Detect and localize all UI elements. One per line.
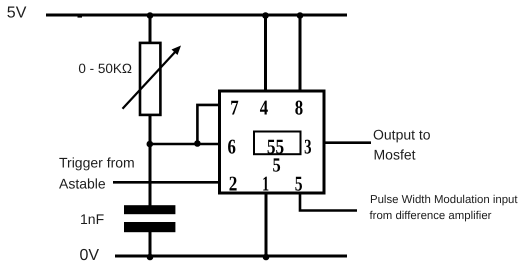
wire pin1 to ground rail [265,193,268,256]
svg-text:Pulse Width Modulation input: Pulse Width Modulation input [370,194,518,206]
wire capacitor to ground rail [149,231,152,257]
node junction resistor-pin6 [147,141,154,148]
svg-text:Astable: Astable [59,176,106,192]
svg-text:5: 5 [295,172,303,196]
wire trigger to pin2 [113,181,219,184]
node junction 5V-pin8 [297,12,304,19]
wire rail to pin8 [299,16,302,90]
node artifact on 5V rail [78,15,83,18]
node junction 5V-resistor [147,12,154,19]
node junction pin7-pin6 [194,140,201,147]
svg-text:from difference amplifier: from difference amplifier [370,210,492,222]
node junction 5V-pin4 [262,12,269,19]
resistor VR1 arrow shaft [123,51,177,109]
svg-text:8: 8 [295,96,303,120]
wire rail to pin4 [264,16,267,90]
wire resistor bottom to capacitor [149,115,152,206]
wire pin5 to PWM input [300,193,357,211]
svg-text:Trigger from: Trigger from [59,155,135,171]
svg-text:Output to: Output to [373,126,431,142]
svg-text:5: 5 [273,155,281,177]
svg-text:1nF: 1nF [80,211,104,227]
wire pin6 to resistor wire [148,143,219,146]
wire 5V top rail [46,14,347,17]
svg-text:6: 6 [228,134,236,158]
wire rail to resistor top [149,15,152,43]
wire 0V ground rail [115,255,347,258]
svg-text:5V: 5V [7,5,27,22]
IC label 55 box [254,132,301,155]
svg-text:3: 3 [304,134,311,158]
resistor VR1 arrow head [172,46,182,56]
svg-text:0V: 0V [80,247,100,264]
wire pin7 bracket to pin6 [197,105,219,144]
node junction cap-0V [147,254,154,261]
svg-text:0 - 50KΩ: 0 - 50KΩ [78,61,132,76]
svg-text:4: 4 [260,96,269,120]
op-amp U1 555 timer box [220,91,325,193]
svg-text:7: 7 [230,96,238,120]
wire pin3 output [324,141,371,144]
svg-text:Mosfet: Mosfet [374,147,416,163]
node junction pin1-0V [263,254,270,261]
svg-text:1: 1 [262,172,269,196]
capacitor C1 top plate [124,205,175,214]
svg-text:2: 2 [229,172,238,196]
capacitor C1 bottom plate [124,222,175,232]
resistor VR1 0-50K body [140,43,160,115]
